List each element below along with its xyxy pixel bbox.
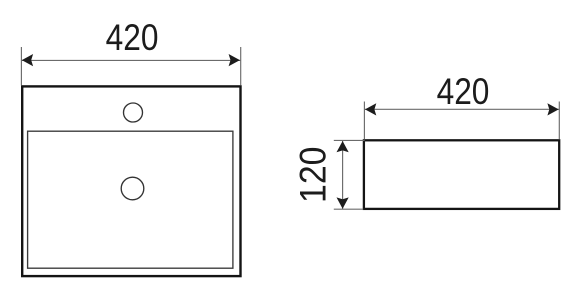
left arrowhead (side view 420) [365,103,376,115]
dimension line 120 (side view height) [342,141,344,209]
left arrowhead (top view 420) [22,54,33,66]
left extension line of top-view width dimension [20,47,22,85]
left extension line of side-view width dimension [363,102,365,140]
bottom extension line of height dimension [334,208,363,210]
basin top view inner bowl rim [28,131,233,268]
right arrowhead (side view 420) [547,103,558,115]
label 120 (side view height, rotated) [292,147,334,203]
top extension line of height dimension [334,139,365,141]
right extension line of side-view width dimension [558,102,560,140]
drain hole circle [121,177,144,200]
right arrowhead (top view 420) [229,54,240,66]
faucet hole circle [124,103,143,122]
label 420 (top view width) [106,17,159,58]
down arrowhead (120) [337,197,349,208]
basin top view outer box [22,86,240,276]
side view rectangle [364,140,559,209]
dimension line 420 (top view) [22,59,241,61]
dimension line 420 (side view) [365,108,559,110]
svg-text:420: 420 [106,17,159,58]
label 420 (side view width) [437,71,490,112]
svg-text:420: 420 [437,71,490,112]
right extension line of top-view width dimension [240,47,242,85]
up arrowhead (120) [337,141,349,152]
svg-text:120: 120 [292,147,334,203]
